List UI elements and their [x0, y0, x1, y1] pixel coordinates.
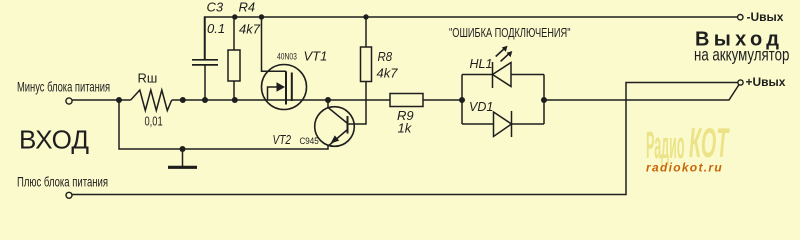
LED network left vertical: [461, 75, 463, 125]
svg-text:1k: 1k: [398, 121, 413, 136]
wire main line left: [72, 99, 131, 101]
capacitor C3 bottom lead: [204, 65, 206, 100]
resistor R4 body: [228, 50, 240, 81]
resistor R8 top lead: [365, 17, 367, 47]
transistor VT2 circle: [315, 107, 355, 147]
svg-text:ВХОД: ВХОД: [19, 125, 89, 155]
svg-text:Плюс блока питания: Плюс блока питания: [17, 175, 108, 190]
terminal minus input: [66, 98, 72, 104]
wire VD1 branch: [462, 123, 544, 125]
svg-text:0,01: 0,01: [145, 115, 163, 129]
transistor VT1 gate path: [268, 87, 278, 100]
resistor R8 body: [361, 47, 372, 82]
node dot rail VT1 drain: [259, 14, 264, 19]
svg-text:4k7: 4k7: [377, 66, 399, 81]
node dot VT2 collector: [325, 97, 331, 103]
node dot main R4: [232, 97, 238, 103]
svg-text:VT2: VT2: [273, 133, 292, 147]
transistor VT2 emitter arrowhead: [331, 135, 340, 143]
node dot main C3: [202, 97, 208, 103]
svg-text:VT1: VT1: [304, 49, 328, 64]
svg-text:+Uвых: +Uвых: [746, 75, 786, 89]
terminal +Uout: [738, 80, 743, 85]
svg-text:0.1: 0.1: [207, 21, 225, 36]
transistor Q VT1 circle: [262, 65, 307, 110]
svg-text:4k7: 4k7: [239, 22, 261, 37]
svg-text:"ОШИБКА ПОДКЛЮЧЕНИЯ": "ОШИБКА ПОДКЛЮЧЕНИЯ": [449, 27, 570, 41]
wire HL1 branch: [462, 74, 544, 76]
LED arrow 1: [496, 48, 505, 57]
LED arrow 2: [501, 53, 510, 62]
wire lower line (emitter return): [119, 100, 328, 149]
node dot rail R4: [232, 14, 237, 19]
svg-text:КОТ: КОТ: [689, 119, 730, 166]
svg-text:на аккумулятор: на аккумулятор: [694, 46, 789, 65]
svg-text:40N03: 40N03: [277, 51, 297, 61]
wire VT1 drain lead: [262, 17, 287, 71]
ground stub: [182, 149, 184, 166]
svg-text:Минус блока питания: Минус блока питания: [17, 80, 110, 95]
svg-text:C3: C3: [207, 0, 224, 15]
transistor VT2 emitter lead: [329, 130, 348, 146]
LED HL1 triangle: [493, 63, 512, 87]
svg-text:C945: C945: [300, 135, 319, 146]
transistor VT2 base bar: [347, 116, 349, 134]
resistor Rsh zigzag: [131, 90, 172, 111]
svg-text:Rш: Rш: [138, 71, 158, 86]
wire main line LED to output: [544, 85, 739, 100]
svg-text:R8: R8: [378, 49, 393, 64]
wire main line middle: [172, 99, 390, 101]
capacitor C3 plates: [192, 60, 218, 65]
node dot LED left: [459, 97, 465, 103]
node dot main 2: [180, 97, 186, 103]
capacitor C3 top lead: [204, 17, 206, 60]
terminal -Uout: [738, 15, 743, 20]
svg-text:VD1: VD1: [469, 100, 493, 114]
resistor R9 body: [390, 94, 423, 107]
node dot main 1: [116, 97, 122, 103]
ground bar: [168, 166, 197, 169]
wire R8 bottom to VT2 base: [349, 82, 367, 125]
svg-text:R4: R4: [239, 0, 256, 15]
svg-text:radiokot.ru: radiokot.ru: [646, 161, 723, 175]
LED arrow 1 head: [502, 46, 508, 52]
transistor VT2 collector lead: [328, 100, 347, 123]
wire top rail: [205, 17, 738, 60]
LED HL1 bar: [492, 62, 494, 88]
transistor VT1 right bar: [291, 73, 293, 102]
transistor VT1 gate arrowhead: [277, 82, 286, 92]
node dot rail R8: [363, 14, 368, 19]
diode VD1 triangle: [494, 112, 512, 137]
transistor VT1 left bar: [285, 71, 287, 104]
svg-text:-Uвых: -Uвых: [747, 10, 784, 24]
wire main line R9 to LED: [423, 99, 462, 101]
node dot ground: [180, 146, 186, 152]
diode VD1 bar: [511, 111, 513, 137]
node dot LED right: [541, 97, 547, 103]
LED network right vertical: [543, 75, 545, 125]
terminal plus input: [66, 192, 72, 198]
LED arrow 2 head: [507, 51, 513, 57]
svg-text:HL1: HL1: [470, 57, 493, 71]
wire bottom rail plus: [72, 83, 738, 195]
resistor R4 leads: [233, 17, 235, 100]
